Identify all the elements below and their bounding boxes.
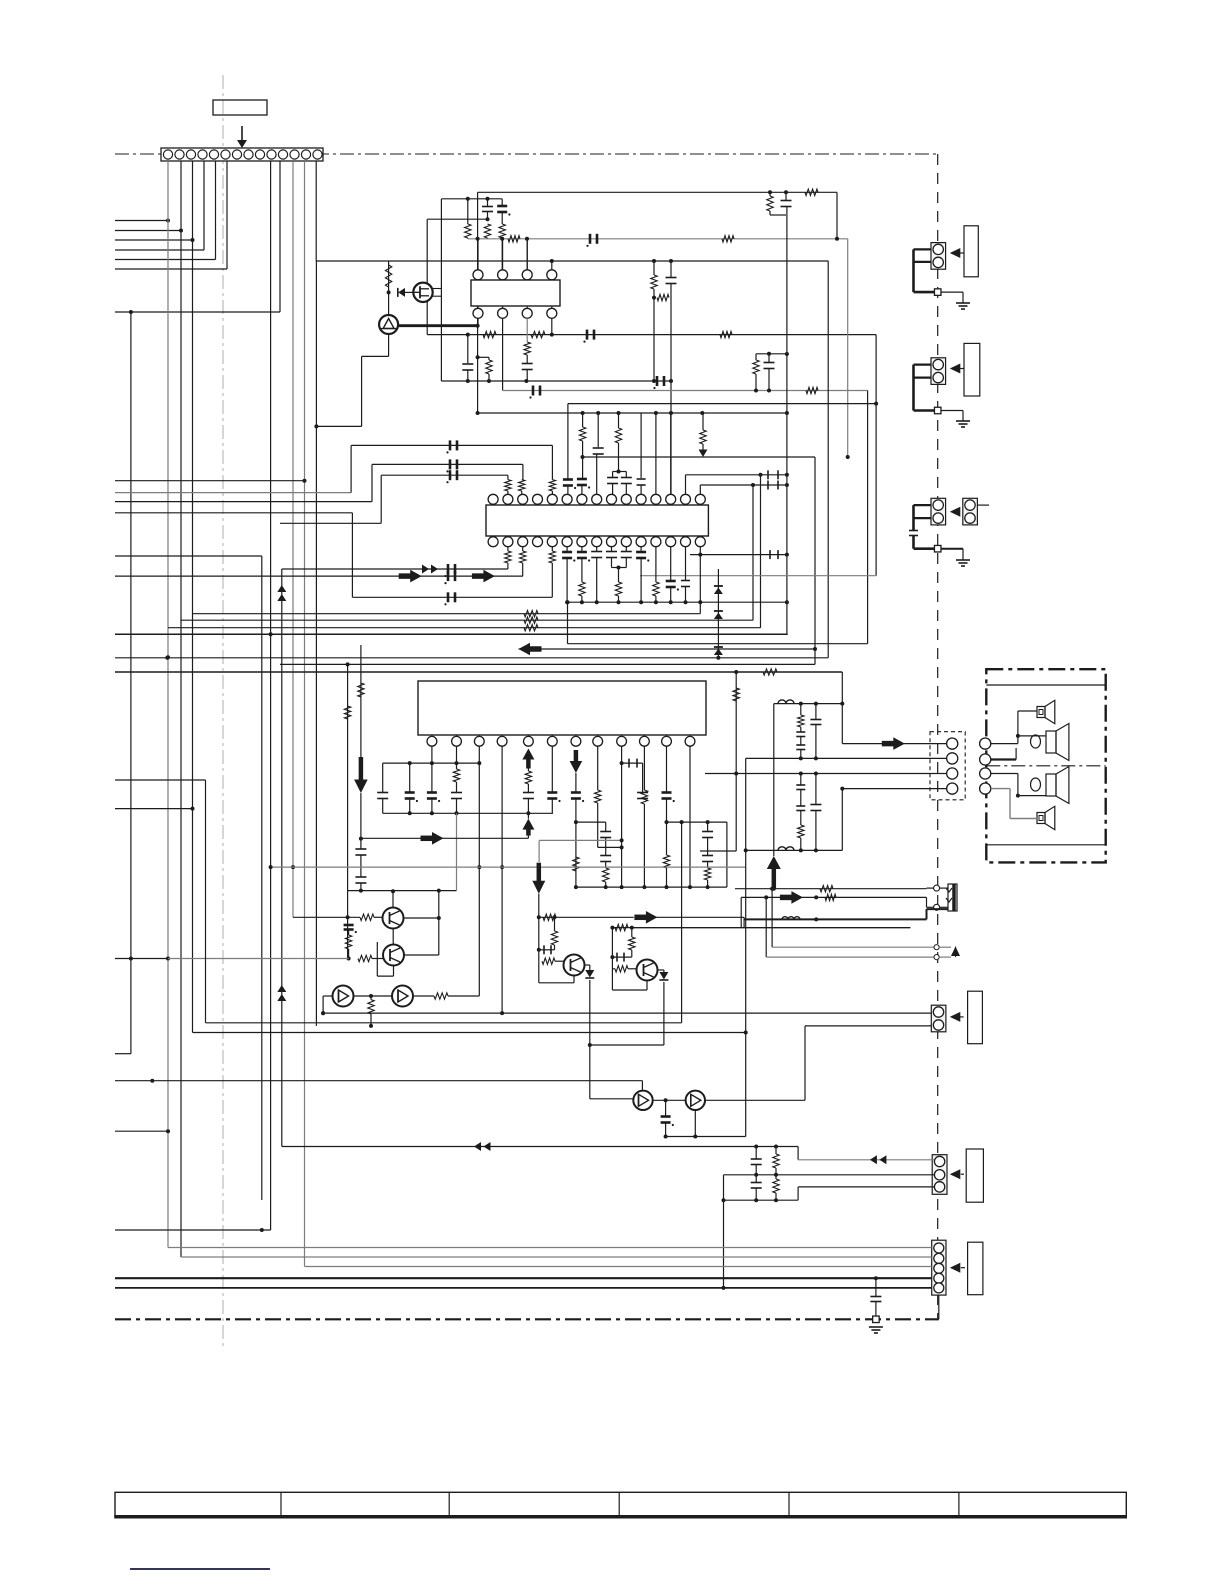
wire Q6 right riser <box>705 1026 931 1100</box>
wire y334 grey long <box>427 333 876 337</box>
resistor feed pin3 <box>519 464 525 494</box>
ground 1 <box>956 303 970 309</box>
bus y763 IC3 <box>383 761 480 765</box>
connector CN203 mate <box>963 498 978 525</box>
wire 5p c5 <box>115 1287 932 1289</box>
wire Q2b base <box>358 955 383 961</box>
cap pair p10 bottom <box>621 547 632 568</box>
wire to strip pin1 <box>115 219 170 223</box>
capacitor C at 786 <box>781 190 792 206</box>
wire IC1 pin2 top stub <box>502 239 504 270</box>
wire y664.4 wrap <box>280 663 815 665</box>
dash-dot frame right rail <box>937 154 939 1319</box>
wire v867 long <box>867 391 869 644</box>
resistor p3 bottom <box>520 547 526 576</box>
wire y1081 to Q5 top <box>641 1081 643 1091</box>
wire v388 from y261 <box>387 261 391 315</box>
diode D Q4 <box>659 972 668 980</box>
wire y480.7 <box>115 480 305 482</box>
cap p14 bottom <box>681 547 690 605</box>
wire y1200 <box>722 1198 799 1202</box>
inductor L3 <box>782 917 800 920</box>
wire y773 sp out3 <box>705 772 947 776</box>
label box top <box>213 100 267 115</box>
wire v351 up <box>350 445 352 492</box>
arrow right y917 <box>634 911 657 924</box>
capacitor v468 <box>462 335 473 381</box>
wire CN202 stubs <box>914 365 935 411</box>
connector CN205 3p <box>932 1155 947 1195</box>
wire CN203 mate stub <box>977 504 989 506</box>
cap to gnd bottom <box>870 1278 881 1316</box>
arrow big on y576 a <box>399 570 422 583</box>
inductor L1 <box>778 700 794 704</box>
wire to gnd 1 <box>941 292 963 303</box>
buffer U circle-triangle <box>379 315 398 334</box>
wire sp term2 thick <box>991 748 1016 760</box>
jack circle a <box>927 885 949 891</box>
connector CN202 <box>931 358 946 385</box>
wire to strip pin4 <box>115 161 204 250</box>
wire v427 gate feed <box>426 219 428 334</box>
wire 5p c3 <box>305 1266 932 1268</box>
wire v663 down <box>663 982 665 1045</box>
resistor to Q3 base <box>542 958 564 964</box>
ecap p13 bottom <box>666 547 679 605</box>
wire y312 to strip pin11 <box>115 161 280 314</box>
wire y1045 <box>590 1044 664 1046</box>
wire to strip pin6 <box>115 161 227 269</box>
resistor to Q4 base <box>612 966 637 972</box>
tweeter 1 <box>1037 700 1055 723</box>
diode stack v718 <box>714 569 723 660</box>
RC near CN2 <box>753 352 786 391</box>
woofer 2 port circle <box>1031 778 1041 791</box>
wire v786 long <box>785 207 789 635</box>
dash-dot frame bottom rail <box>115 1318 939 1320</box>
wire sp term4 <box>991 789 1037 819</box>
coil wire bottom filter <box>746 849 843 851</box>
wire y192 top <box>478 191 837 193</box>
resistor p2 bottom <box>282 547 511 569</box>
arrow down into connector <box>237 126 247 148</box>
wire y576 grey right <box>640 575 876 577</box>
wire to strip pin2 <box>115 229 183 233</box>
wire Q4 right diode <box>658 970 664 975</box>
wire Q6 bottom <box>694 1110 696 1137</box>
wire y1053 stub <box>115 1053 131 1055</box>
capacitor pair y474 <box>768 470 778 479</box>
wire y261 grey <box>316 259 828 263</box>
connector to speakers 4p <box>930 732 965 800</box>
coil wire top filter <box>774 702 843 706</box>
resistor on y334 right <box>720 331 732 337</box>
resistor v388 <box>385 265 391 287</box>
connector CN204 <box>931 1005 946 1032</box>
wire v828 long <box>827 261 829 658</box>
transistor Q2a <box>383 908 404 929</box>
wire y888 jack <box>735 886 927 892</box>
arrow into CN205 <box>950 1169 964 1179</box>
wire buffer bottom <box>316 334 388 426</box>
wire Q2a emitter right <box>404 916 441 920</box>
ecap p11 bottom <box>636 547 649 605</box>
wire y838 arrow <box>361 832 529 845</box>
IC3 pin4 long <box>500 746 504 1015</box>
ecap v409 <box>405 763 418 815</box>
resistor drop p7 <box>577 413 590 494</box>
wire Q2a-Q2b link <box>392 929 394 945</box>
wire IC1 pin1 bottom <box>477 318 479 325</box>
wire v744 <box>743 917 745 927</box>
capacitor pair y485 <box>768 481 778 490</box>
wire y613.7 <box>193 602 701 617</box>
speaker terminal 2 <box>980 754 991 765</box>
resistor feed pin5 <box>549 445 555 494</box>
wire v736 <box>700 672 739 851</box>
resistor R at 770 <box>767 190 786 215</box>
bus y887 IC3 <box>574 886 727 888</box>
resistor R top a <box>465 199 471 239</box>
wire y390 grey long <box>503 389 868 393</box>
resistor on y334 b <box>531 331 545 337</box>
flag arrow <box>951 947 960 958</box>
arrow into CN204 <box>950 1012 964 1022</box>
wire IC1 pin2 bottom <box>502 318 504 390</box>
wire y822 right branch <box>667 820 727 824</box>
chevrons y1159 <box>870 1155 887 1164</box>
wire step to c1 <box>798 1147 934 1160</box>
wire p14 top <box>686 473 787 495</box>
arrow right sp1 <box>882 737 905 750</box>
capacitor pair y554 <box>770 550 778 559</box>
wire v438 <box>438 891 440 955</box>
IC2 main chip 30-pin <box>486 494 708 546</box>
jack symbol <box>946 884 957 911</box>
transistor Q6 buffer <box>686 1091 705 1110</box>
wire y219.2 <box>427 217 489 221</box>
wire y743 sp out1 <box>842 743 947 745</box>
resistor between buffers <box>368 996 374 1028</box>
wire woofer2 feed <box>1018 795 1046 797</box>
capacitor on y390 <box>529 386 540 399</box>
speaker box divider <box>986 765 1105 767</box>
wire strip pin10 vertical <box>270 161 272 1230</box>
wire Q2a collector up <box>391 889 395 907</box>
wire Q3 bottom <box>539 961 574 983</box>
filter chain b <box>810 704 821 761</box>
wire y556 <box>115 555 262 557</box>
resistor v489 <box>486 357 492 381</box>
wire 5p c1 <box>168 1247 932 1249</box>
speaker terminal 4 <box>980 783 991 794</box>
resistor mid bank <box>615 568 621 605</box>
wire y1146 long <box>282 1145 798 1149</box>
wire v745 long <box>744 758 748 1136</box>
op-amp IC1 8-pin <box>471 270 560 319</box>
resistor on y390 right <box>806 387 818 393</box>
wire v847 grey <box>846 239 850 459</box>
wire y445 feed pin5 <box>351 440 552 453</box>
wire v261 long <box>261 556 263 1200</box>
wire y1230 <box>115 1228 271 1232</box>
IC3 pin11 chain <box>662 746 675 889</box>
wire v352 down <box>351 513 353 598</box>
wire to strip pin3 <box>115 238 195 242</box>
resistor p5 bottom <box>549 547 555 598</box>
wire y357 stub <box>478 356 489 358</box>
wire y1174 mid <box>724 1173 935 1177</box>
transistor Q4 <box>637 960 658 981</box>
wire y927 row <box>610 924 910 930</box>
wire Q3 right diode <box>585 965 590 970</box>
cap p8 bottom <box>591 547 602 605</box>
speaker enclosure dash-dot <box>986 669 1105 862</box>
wire Q2b bottom <box>377 942 393 976</box>
tweeter 2 <box>1037 806 1055 829</box>
wire v527 pin3 feed <box>526 239 528 270</box>
wire step to c3 <box>798 1187 934 1200</box>
wire 5p c2 <box>181 1256 932 1258</box>
IC3 pin8 chain <box>595 746 624 849</box>
wire mosfet drain <box>433 289 442 297</box>
IC3 pin1 chain <box>427 746 440 815</box>
wire to strip pin5 <box>115 161 216 260</box>
ecap p6 bottom <box>562 547 575 605</box>
wire v347 left <box>344 664 350 958</box>
chain v605 <box>600 822 611 889</box>
capacitor pair p10 <box>621 472 632 495</box>
resistor v631 <box>629 928 635 958</box>
wire v842 lower <box>840 787 844 851</box>
ecap p7 bottom <box>577 547 590 605</box>
wire to gnd 3 <box>941 549 963 560</box>
wire y198.8 <box>441 197 502 201</box>
wire y1013 long <box>321 1011 931 1015</box>
wire v837 <box>836 192 838 239</box>
wire y512.8 <box>115 512 352 514</box>
connector CN201 <box>931 243 946 270</box>
jack step c <box>927 909 949 919</box>
cap pair p9 bottom <box>606 547 626 570</box>
resistor feed pin2 <box>505 475 511 494</box>
buffer C1 circle <box>333 986 354 1007</box>
wire C1-C2 link <box>354 994 393 998</box>
wire y867 grey long <box>269 865 746 869</box>
wire buffer out thick <box>398 324 478 327</box>
wire y947 grey <box>772 945 951 950</box>
ground 3 <box>956 560 970 566</box>
IC3 pin6 chain <box>547 746 560 813</box>
wire y657.8 wrap <box>115 656 828 660</box>
wire y1080 long <box>115 1079 642 1083</box>
wire p15 top <box>700 483 787 494</box>
resistor h656 <box>657 294 669 300</box>
arrow into CN202 <box>950 364 964 374</box>
wire v876 long <box>875 335 877 576</box>
filter chain a <box>796 704 805 761</box>
capacitor on y381 <box>653 376 664 389</box>
label box CN202 <box>964 343 980 396</box>
wire y501.6 <box>115 501 372 503</box>
wire 5p bottom drop <box>938 1295 940 1319</box>
wire y957 grey <box>766 955 951 960</box>
arrow big on y576 b <box>472 570 495 583</box>
wire v815 long <box>813 457 817 664</box>
woofer 1 <box>1046 724 1069 761</box>
cap chain v348 <box>344 925 357 961</box>
wire y649 left arrow <box>519 643 816 656</box>
connector strip CN101 <box>161 148 323 161</box>
wire drop p13 <box>670 413 672 494</box>
wire y523.3 <box>280 522 381 524</box>
resistor p12 bottom <box>653 547 659 605</box>
wire C1 left <box>321 996 332 1015</box>
wire v381 up <box>380 475 382 523</box>
cap below Q5Q6 <box>661 1100 674 1138</box>
wire y917 row <box>539 914 744 920</box>
wire CN201 stubs <box>914 249 935 292</box>
IC3 pin3 long <box>477 746 481 996</box>
transistor Q1 mosfet <box>413 283 432 302</box>
label box CN201 <box>964 226 978 277</box>
wire v773 up arrow <box>773 704 775 856</box>
wire CN203 stubs <box>914 505 932 530</box>
wire v281 long <box>281 569 283 1147</box>
wire y960 to left <box>115 957 168 961</box>
resistor on y334 a <box>483 331 496 337</box>
wire v726 box <box>726 822 728 887</box>
ground bottom <box>869 1327 883 1333</box>
wire woofer1 feed <box>1018 735 1046 737</box>
wire strip pin1 vertical <box>166 161 170 1248</box>
inductor L2 <box>778 847 794 851</box>
wire v842 to sp1 <box>840 672 844 744</box>
cap chain v756 <box>751 1147 762 1201</box>
wire v360 left <box>358 645 364 757</box>
cap drop p11 <box>637 413 646 494</box>
wire y788 sp out4 <box>842 788 947 790</box>
square gnd node 2 <box>934 407 941 414</box>
label box CN205 <box>966 1149 983 1202</box>
wire IC1 pin3 top stub <box>526 239 528 270</box>
bus y602 below IC2 <box>567 601 786 603</box>
wire sp term1 <box>991 711 1037 744</box>
wire IC1 pin4 top stub <box>550 259 554 270</box>
square gnd node 3 <box>934 545 941 552</box>
transistor Q5 buffer <box>633 1091 652 1110</box>
IC3 power amp chip <box>418 681 706 746</box>
wire v477 long <box>476 192 480 415</box>
wire y492.6 <box>115 492 351 494</box>
resistor v554 <box>551 917 557 950</box>
wire y643.7 wrap <box>566 600 868 644</box>
wire p15 bottom <box>698 547 702 605</box>
wire strip pin12 vertical <box>291 161 295 917</box>
IC3 pin7 chain <box>570 750 585 889</box>
wire v205 from y780 <box>115 780 206 1023</box>
resistor drop right <box>700 413 706 450</box>
res chain v776 <box>773 1147 779 1201</box>
connector CN203 <box>931 498 946 525</box>
wire y672 speaker feed <box>115 669 842 675</box>
wire IC1 pin3 bottom chain <box>522 318 533 381</box>
wire y627.7 <box>168 475 761 631</box>
cap on gnd lead 3 <box>909 531 935 549</box>
arrow up big filter <box>767 856 781 889</box>
filter chain c <box>796 774 805 853</box>
diode D Q3 <box>585 970 594 978</box>
bus y813 IC3 <box>383 812 553 814</box>
capacitor drop p8 <box>593 413 604 494</box>
capacitor on y238.8 <box>586 234 597 247</box>
wire y620.2 <box>180 485 753 623</box>
wire sp term3 <box>991 774 1020 798</box>
speaker box inner bottom <box>986 844 1105 846</box>
wire 5p c4 thick <box>115 1276 932 1280</box>
wire Q2b emitter <box>404 954 439 956</box>
wire y475 feed pin2 <box>381 470 508 483</box>
filter chain d <box>810 774 821 853</box>
wire y758 sp out2 <box>746 757 947 759</box>
arrow into CN206 <box>950 1263 965 1273</box>
arrow down v360 <box>354 757 368 793</box>
wire C2 right resistor <box>413 993 479 999</box>
ecap on y569 <box>444 564 455 577</box>
wire v360 lower <box>355 793 366 893</box>
wire y381 <box>441 379 671 383</box>
diode D to mosfet <box>398 288 414 297</box>
resistor on y238.8 <box>508 236 520 242</box>
wire IC1 pin4 bottom <box>551 318 553 334</box>
transistor Q3 <box>564 955 585 976</box>
dash-dot frame top rail <box>115 153 938 155</box>
wire y822 branch <box>576 821 606 823</box>
wire y457 right <box>581 450 816 460</box>
IC3 pin9 long <box>620 746 624 889</box>
wire y597 <box>352 592 552 605</box>
capacitor on y334 <box>583 330 594 343</box>
wire v192 from y808 <box>115 807 195 811</box>
transistor Q2b <box>383 945 404 966</box>
label box CN206 <box>968 1242 983 1295</box>
wire to gnd 2 <box>941 411 963 422</box>
wire y927 across <box>634 927 911 929</box>
wire v741 <box>740 897 742 927</box>
wire y890 bus <box>348 889 457 893</box>
chevrons on y569 <box>422 565 438 574</box>
wire v589 down <box>588 980 634 1099</box>
chevrons y1146 <box>474 1142 491 1151</box>
wire y413 rail <box>478 411 786 415</box>
square gnd node 1 <box>934 289 941 296</box>
wire y634.3 wrap <box>115 632 788 636</box>
wire v382 cap <box>377 763 388 813</box>
wire y554 <box>690 553 787 557</box>
wire strip pin2 vertical <box>180 161 182 1257</box>
wire v456 grey link <box>456 813 458 890</box>
resistor v654 <box>651 261 657 383</box>
IC3 pin5 chain <box>522 749 534 819</box>
cap h Q3 <box>537 945 555 954</box>
cap branch pin9 <box>622 759 649 799</box>
buffer C2 circle <box>392 986 413 1007</box>
capacitor v671 <box>666 261 677 495</box>
resistor drop p9p10 <box>613 413 627 474</box>
wire y1136 <box>666 1135 746 1139</box>
square gnd node bottom <box>873 1316 880 1323</box>
capacitor pair p9 <box>607 472 618 495</box>
